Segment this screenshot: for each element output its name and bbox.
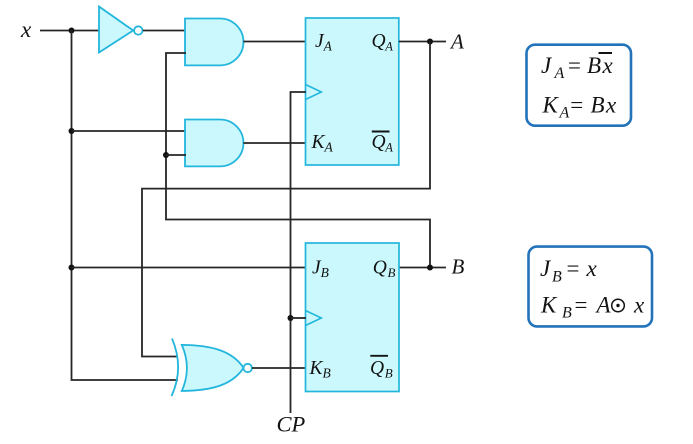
svg-text:B: B <box>591 93 605 118</box>
svg-text:=: = <box>573 293 589 318</box>
equation box B <box>529 247 653 327</box>
svg-text:B: B <box>587 53 601 78</box>
svg-text:J: J <box>540 256 552 281</box>
node x junction top <box>69 28 75 34</box>
wire x to G2 input <box>72 130 187 132</box>
AND gate G2 <box>185 120 243 167</box>
svg-text:A: A <box>595 293 612 318</box>
svg-text:B: B <box>452 255 465 279</box>
wire x vertical bus down to XNOR input 2 <box>72 31 179 381</box>
wire G3 output to K_B <box>252 367 306 369</box>
node x junction to G2 <box>69 128 75 134</box>
clock triangle FF B <box>306 311 322 326</box>
node A <box>427 39 433 45</box>
equation box A <box>527 45 632 126</box>
wire G2 output to K_A <box>243 142 306 144</box>
svg-text:B: B <box>385 366 393 381</box>
svg-text:A: A <box>449 29 464 53</box>
equation J_B = x <box>540 256 598 286</box>
svg-text:A: A <box>384 40 393 54</box>
flip-flop A box <box>306 18 399 165</box>
wire CP to FF B clock <box>291 317 307 319</box>
equation K_B = A⊙x <box>540 293 645 322</box>
svg-text:K: K <box>540 293 558 318</box>
XNOR gate G3 <box>172 339 252 397</box>
svg-text:Q: Q <box>370 358 384 379</box>
wire Q_B to node B <box>399 267 446 269</box>
node B branch to G2 <box>163 152 169 158</box>
svg-text:x: x <box>586 256 598 281</box>
equation K_A = Bx <box>542 93 618 122</box>
svg-text:B: B <box>562 304 572 321</box>
svg-text:B: B <box>552 269 562 286</box>
svg-text:x: x <box>633 293 645 318</box>
label Q̄_A with overbar <box>372 132 394 155</box>
svg-text:x: x <box>602 53 614 78</box>
AND gate G1 <box>185 19 243 66</box>
svg-text:x: x <box>20 17 32 42</box>
wire B feedback to G1 input <box>166 53 430 268</box>
node CP junction <box>288 315 294 321</box>
equation J_A = Bx̄ <box>541 53 614 82</box>
svg-text:J: J <box>541 53 553 78</box>
wire x input <box>40 30 100 32</box>
svg-text:=: = <box>567 53 583 78</box>
svg-text:A: A <box>384 141 393 155</box>
svg-text:B: B <box>388 265 396 280</box>
svg-text:K: K <box>542 93 560 118</box>
wire Q_A to node A <box>399 41 446 43</box>
wire x to J_B <box>72 267 307 269</box>
wire CP vertical to FF A clock <box>291 92 307 413</box>
svg-text:x: x <box>605 93 617 118</box>
inverter U1 <box>99 7 143 53</box>
svg-text:Q: Q <box>372 31 386 52</box>
flip-flop B box <box>306 243 400 392</box>
svg-text:A: A <box>554 65 565 82</box>
wire B to G2 input <box>166 154 186 156</box>
svg-text:CP: CP <box>277 411 306 436</box>
label Q̄_B with overbar <box>370 356 393 381</box>
wire G1 output to J_A <box>243 41 306 43</box>
svg-text:Q: Q <box>372 132 386 153</box>
wire A feedback to XNOR input 1 <box>142 42 430 357</box>
node x junction to J_B <box>69 265 75 271</box>
clock triangle FF A <box>306 85 322 100</box>
node B <box>427 265 433 271</box>
wire inverter output to G1 <box>143 30 186 32</box>
svg-text:=: = <box>565 256 581 281</box>
svg-text:Q: Q <box>373 258 387 279</box>
svg-text:=: = <box>569 93 585 118</box>
